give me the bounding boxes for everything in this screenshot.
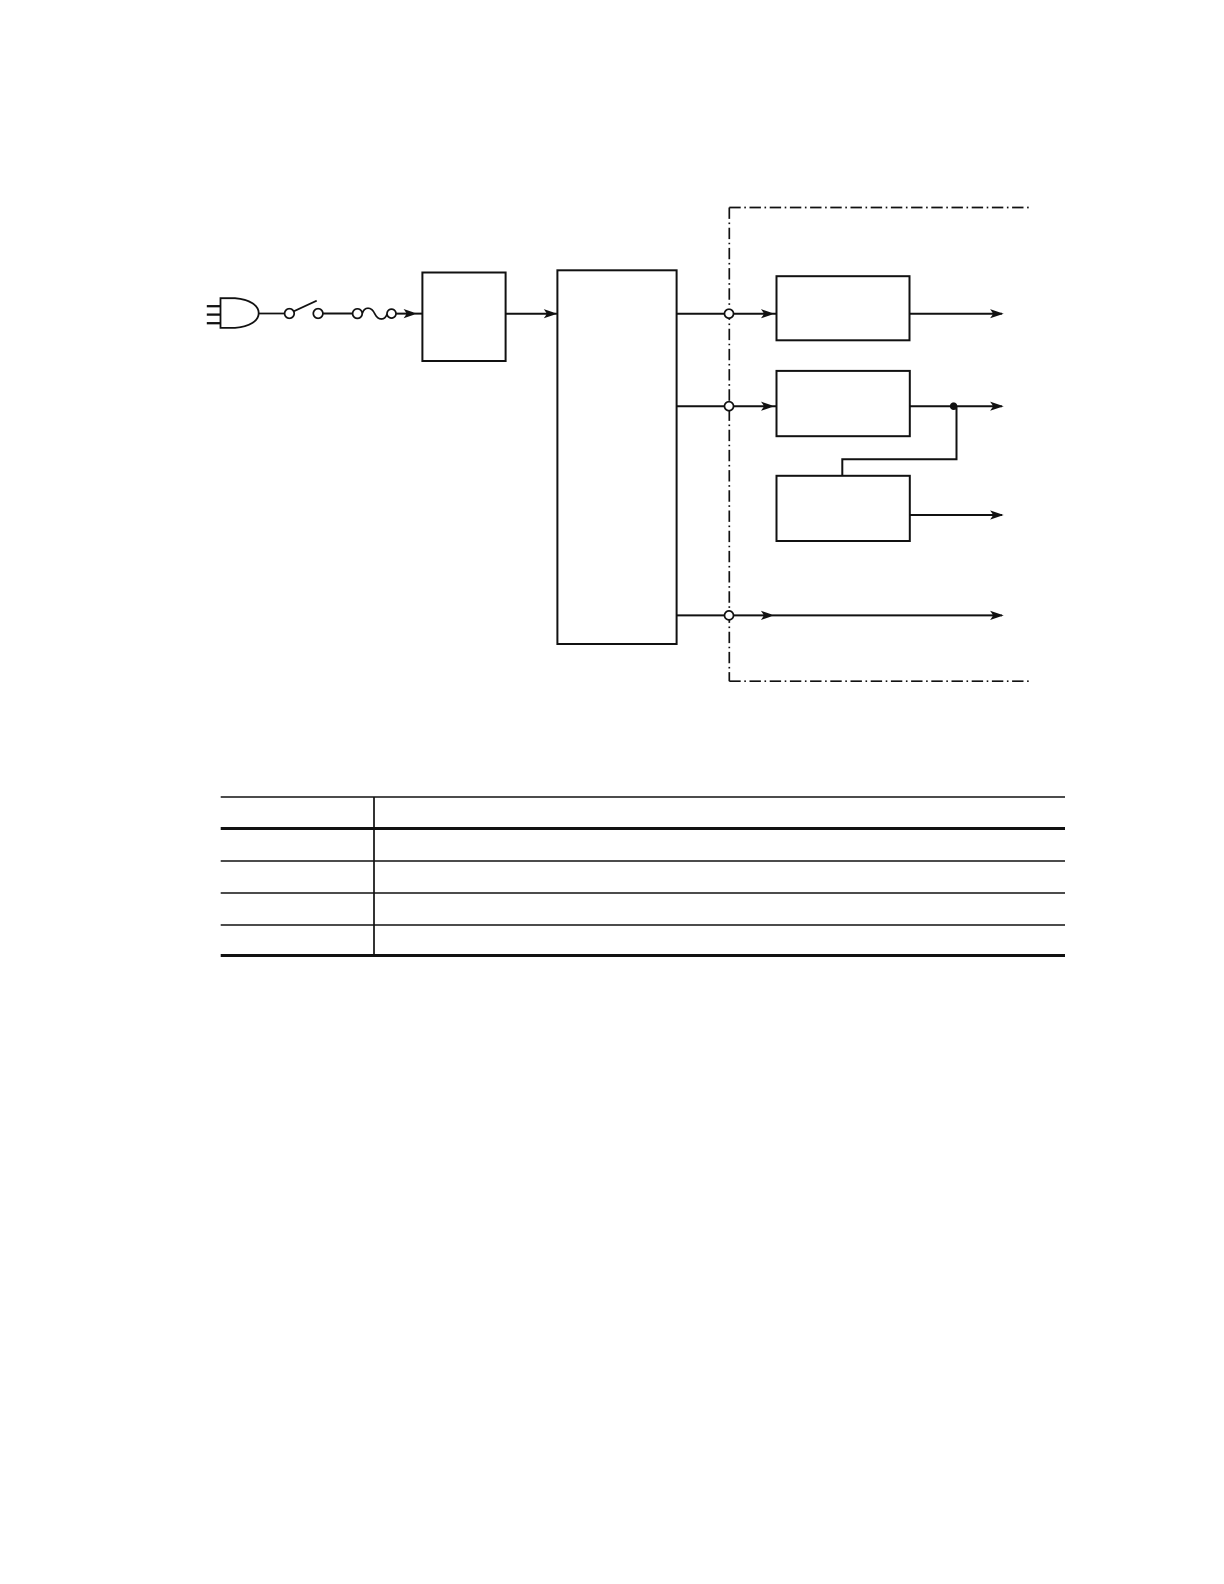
wire fuse to block 1 with arrowhead [396,313,422,315]
fuse terminal circle (left) [353,309,363,319]
table top rule (thin) [221,796,1065,798]
table row rule 2 (thin) [221,860,1065,862]
end arrowhead on bottom line [990,611,1004,620]
dash-dot boundary, top horizontal [729,207,1031,209]
table bottom rule (thick) [221,954,1065,957]
block 3 (upper right box) [777,276,910,340]
wire output row 2 from tall box [677,405,777,407]
block 1 (small square box) [422,273,505,362]
dash-dot boundary (unit outline), left vertical [728,208,730,682]
wire plug to switch [259,313,285,315]
block 2 (tall box) [557,270,676,644]
wire output row 1 from tall box [677,313,777,315]
wire output of block 3 with arrowhead [910,313,1003,315]
table row rule 4 (thin) [221,924,1065,926]
power plug (AC inlet) [207,298,259,328]
switch S1 contact circle (right) [313,309,323,319]
dash-dot boundary, bottom horizontal [729,680,1030,682]
table column separator [373,797,375,956]
arrowhead row 2 into block 4 [761,402,775,411]
arrowhead row 1 into block 3 [761,309,775,318]
feedback wire from junction to block 5 top [842,406,956,476]
wire output of block 4 with arrowhead [910,405,1002,407]
wire switch to fuse [323,313,353,315]
table row rule 3 (thin) [221,892,1065,894]
fuse terminal circle (right) [387,309,396,318]
block 5 (lower right box) [777,476,910,541]
wire output of block 5 with arrowhead [910,514,1002,516]
junction dot on block 4 output [950,402,958,410]
fuse element (wavy link) [362,308,387,319]
terminal circle row 1 on boundary [725,309,734,318]
table header rule (thick) [221,827,1065,830]
wire block 1 to block 2 with arrowhead [506,313,557,315]
terminal circle row 4 on boundary [725,611,734,620]
terminal circle row 2 on boundary [725,402,734,411]
wire output row 4 from tall box (bottom line) [677,614,1002,616]
switch S1 contact circle (left) [285,309,295,319]
mid arrowhead on bottom line [761,611,775,620]
block 4 (middle right box) [777,371,910,436]
switch S1 lever [294,301,317,312]
